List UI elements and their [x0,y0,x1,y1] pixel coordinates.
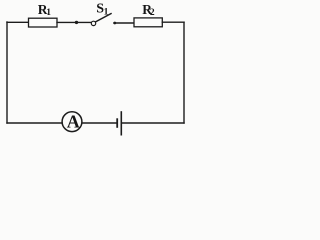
label R1 [38,2,52,18]
svg-text:1: 1 [46,8,51,18]
ammeter A1 circle [62,112,82,132]
wire: bottom-right to battery [122,122,184,124]
wire: right vertical side [183,22,185,123]
wire: left vertical side [6,22,8,123]
wire: R1 to switch pivot [57,21,91,23]
label S1 [96,2,108,18]
switch S1 pivot [91,21,95,25]
wire: ammeter to bottom-left corner [7,122,62,124]
switch S1 lever [96,14,112,22]
wire: R2 to top-right corner [162,21,184,23]
battery negative plate (short) [116,119,118,127]
resistor R1 [29,18,58,27]
resistor R2 [134,18,162,27]
battery positive plate (long) [120,112,122,135]
switch S1 right contact dot [113,22,116,25]
wire: battery to ammeter [82,122,117,124]
svg-text:A: A [67,111,80,131]
node A (junction dot) [75,21,78,24]
svg-text:1: 1 [104,7,109,17]
label R2 [142,2,155,18]
wire: switch contact to R2 [114,22,134,24]
svg-text:2: 2 [150,8,155,18]
wire: top-left to R1 [7,21,29,23]
